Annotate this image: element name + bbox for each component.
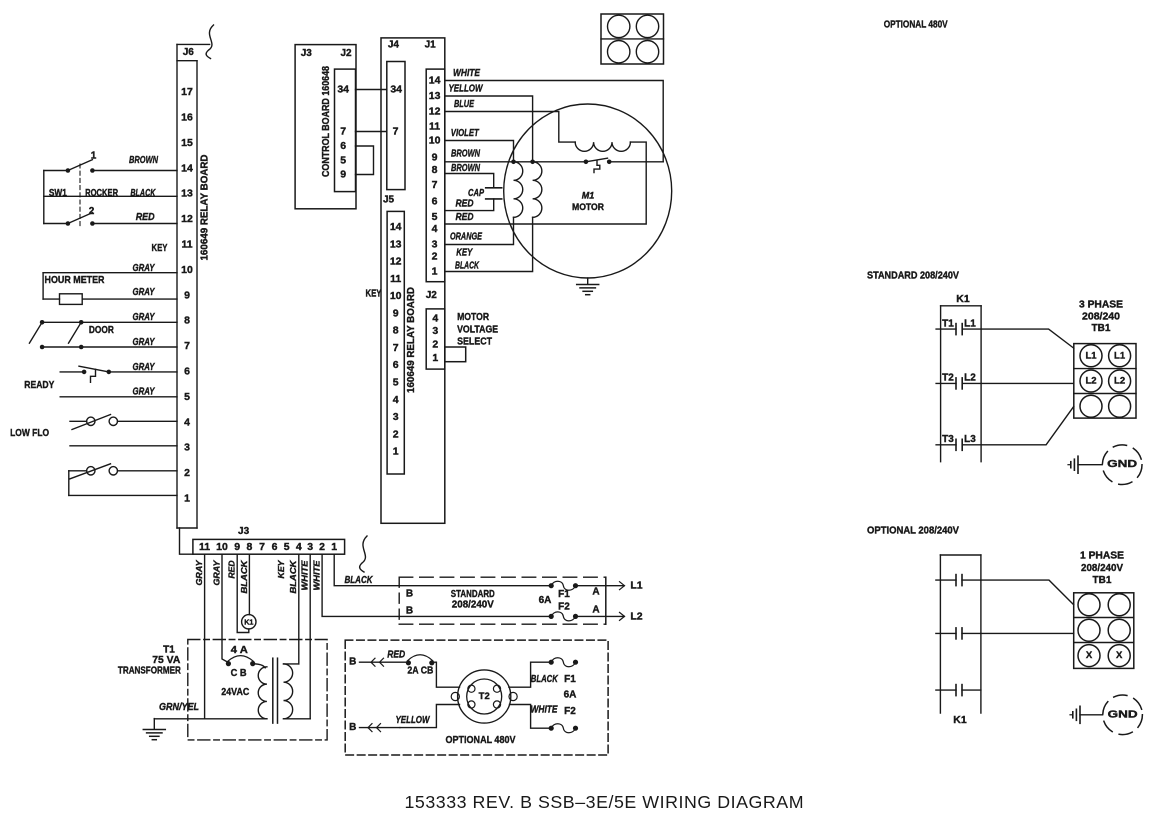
svg-text:GRAY: GRAY [194, 559, 204, 585]
svg-text:VIOLET: VIOLET [451, 128, 480, 139]
svg-text:7: 7 [393, 342, 399, 354]
svg-text:TRANSFORMER: TRANSFORMER [118, 666, 182, 677]
svg-text:WHITE: WHITE [453, 68, 480, 79]
svg-text:BROWN: BROWN [451, 149, 481, 160]
svg-text:OPTIONAL 480V: OPTIONAL 480V [446, 734, 516, 746]
svg-text:208/240V: 208/240V [1081, 563, 1123, 574]
svg-text:J6: J6 [183, 47, 195, 58]
svg-text:L3: L3 [964, 434, 976, 445]
svg-text:F2: F2 [558, 602, 570, 613]
svg-text:16: 16 [181, 112, 193, 124]
svg-text:13: 13 [390, 238, 402, 250]
svg-text:6: 6 [393, 359, 399, 371]
svg-text:VOLTAGE: VOLTAGE [457, 324, 498, 335]
svg-text:2: 2 [432, 339, 438, 351]
svg-text:17: 17 [181, 86, 193, 98]
svg-text:L2: L2 [1085, 376, 1096, 387]
svg-text:3: 3 [184, 442, 190, 454]
svg-text:1: 1 [393, 446, 399, 458]
svg-text:J2: J2 [426, 290, 438, 301]
svg-text:208/240V: 208/240V [452, 599, 494, 610]
svg-text:5: 5 [393, 377, 399, 389]
svg-text:12: 12 [181, 213, 193, 225]
svg-text:J4: J4 [388, 39, 400, 50]
svg-text:208/240: 208/240 [1082, 311, 1120, 322]
svg-text:2: 2 [393, 428, 399, 440]
svg-text:BLACK: BLACK [130, 188, 156, 199]
svg-text:L1: L1 [1085, 350, 1097, 361]
svg-text:M1: M1 [582, 191, 595, 201]
svg-text:1: 1 [432, 352, 438, 364]
svg-text:8: 8 [184, 315, 190, 327]
svg-text:5: 5 [284, 541, 290, 553]
svg-text:7: 7 [259, 541, 265, 553]
svg-text:3 PHASE: 3 PHASE [1079, 300, 1123, 311]
svg-text:11: 11 [390, 273, 401, 285]
svg-text:7: 7 [340, 126, 346, 138]
svg-text:X: X [1086, 650, 1093, 661]
svg-text:F1: F1 [564, 674, 576, 685]
svg-text:GRAY: GRAY [133, 362, 156, 373]
svg-text:RED: RED [456, 198, 474, 209]
svg-text:L2: L2 [1114, 376, 1125, 387]
svg-text:153333 REV. B SSB–3E/5E WIRING: 153333 REV. B SSB–3E/5E WIRING DIAGRAM [405, 792, 804, 812]
svg-text:T1: T1 [942, 318, 954, 329]
svg-text:1: 1 [91, 151, 97, 162]
svg-text:5: 5 [184, 391, 190, 403]
svg-text:X: X [1116, 650, 1123, 661]
svg-text:14: 14 [181, 162, 193, 174]
svg-text:MOTOR: MOTOR [457, 312, 490, 323]
svg-text:TB1: TB1 [1092, 323, 1111, 334]
svg-text:J2: J2 [340, 48, 352, 59]
svg-text:T3: T3 [942, 434, 954, 445]
svg-text:MOTOR: MOTOR [572, 202, 604, 213]
svg-text:BLUE: BLUE [454, 99, 474, 110]
svg-text:6A: 6A [539, 595, 552, 606]
svg-text:BLACK: BLACK [239, 560, 249, 594]
svg-text:2: 2 [89, 206, 95, 217]
svg-text:RED: RED [456, 212, 474, 223]
svg-text:SELECT: SELECT [457, 337, 492, 348]
svg-text:15: 15 [181, 137, 193, 149]
svg-text:WHITE: WHITE [312, 560, 322, 590]
svg-text:GRAY: GRAY [133, 263, 156, 274]
svg-text:6A: 6A [564, 689, 577, 700]
svg-text:L2: L2 [964, 373, 976, 384]
svg-text:KEY: KEY [276, 559, 286, 578]
svg-text:SW1: SW1 [49, 188, 67, 199]
svg-text:GRAY: GRAY [133, 287, 156, 298]
svg-text:K1: K1 [953, 714, 967, 726]
svg-text:OPTIONAL 480V: OPTIONAL 480V [884, 19, 948, 30]
svg-text:160649 RELAY BOARD: 160649 RELAY BOARD [199, 154, 210, 260]
svg-text:BROWN: BROWN [129, 155, 159, 166]
svg-text:9: 9 [393, 307, 399, 319]
svg-text:5: 5 [432, 211, 438, 223]
svg-text:7: 7 [432, 179, 438, 191]
svg-text:HOUR METER: HOUR METER [45, 275, 106, 286]
svg-text:11: 11 [181, 239, 192, 251]
svg-text:10: 10 [181, 264, 193, 276]
svg-text:B: B [349, 722, 356, 733]
svg-text:WHITE: WHITE [300, 560, 310, 590]
svg-text:F1: F1 [558, 589, 570, 600]
svg-text:GRN/YEL: GRN/YEL [159, 702, 199, 713]
svg-text:11: 11 [429, 121, 440, 133]
svg-text:14: 14 [429, 75, 441, 87]
svg-text:9: 9 [340, 169, 346, 181]
svg-text:ORANGE: ORANGE [450, 231, 482, 242]
svg-text:A: A [592, 604, 599, 615]
svg-text:STANDARD 208/240V: STANDARD 208/240V [867, 270, 959, 281]
svg-text:8: 8 [432, 164, 438, 176]
svg-text:BLACK: BLACK [288, 560, 298, 594]
svg-text:6: 6 [272, 541, 278, 553]
svg-text:C B: C B [231, 668, 247, 679]
svg-text:34: 34 [390, 84, 402, 96]
svg-text:T2: T2 [942, 373, 954, 384]
svg-text:9: 9 [184, 289, 190, 301]
svg-text:RED: RED [227, 561, 237, 579]
svg-text:2: 2 [432, 251, 438, 263]
svg-text:L1: L1 [964, 318, 976, 329]
svg-text:11: 11 [199, 541, 210, 553]
svg-text:34: 34 [337, 84, 349, 96]
svg-text:B: B [406, 588, 413, 599]
svg-text:BROWN: BROWN [451, 163, 481, 174]
svg-text:1: 1 [331, 541, 337, 553]
svg-text:L1: L1 [1114, 350, 1126, 361]
svg-text:YELLOW: YELLOW [449, 83, 484, 94]
svg-text:7: 7 [184, 340, 190, 352]
svg-text:4: 4 [432, 313, 438, 325]
svg-text:A: A [592, 587, 599, 598]
svg-text:BLACK: BLACK [345, 575, 374, 586]
svg-text:L2: L2 [630, 610, 642, 622]
svg-text:YELLOW: YELLOW [396, 715, 431, 726]
svg-text:RED: RED [136, 212, 155, 223]
svg-text:12: 12 [429, 106, 441, 118]
svg-text:T1: T1 [163, 644, 175, 655]
svg-text:2: 2 [319, 541, 325, 553]
svg-text:GND: GND [1108, 709, 1138, 720]
svg-text:ROCKER: ROCKER [85, 188, 119, 199]
svg-text:6: 6 [340, 140, 346, 152]
svg-text:J1: J1 [425, 39, 437, 50]
svg-text:1: 1 [432, 266, 438, 278]
svg-text:4: 4 [184, 416, 190, 428]
svg-text:2: 2 [184, 467, 190, 479]
svg-text:24VAC: 24VAC [221, 686, 249, 698]
svg-text:J3: J3 [301, 48, 313, 59]
svg-text:K1: K1 [956, 293, 970, 305]
svg-text:TB1: TB1 [1093, 575, 1112, 586]
svg-text:10: 10 [390, 290, 402, 302]
svg-text:GRAY: GRAY [133, 312, 156, 323]
svg-text:DOOR: DOOR [89, 325, 115, 336]
svg-text:KEY: KEY [456, 247, 473, 258]
svg-text:75 VA: 75 VA [152, 655, 180, 666]
svg-text:F2: F2 [564, 706, 576, 717]
svg-text:GND: GND [1107, 459, 1137, 470]
svg-text:KEY: KEY [152, 243, 168, 254]
svg-text:5: 5 [340, 155, 346, 167]
svg-text:CONTROL BOARD 160648: CONTROL BOARD 160648 [321, 66, 332, 177]
svg-text:WHITE: WHITE [531, 705, 558, 716]
svg-text:13: 13 [429, 90, 441, 102]
svg-text:8: 8 [246, 541, 252, 553]
svg-text:GRAY: GRAY [133, 337, 156, 348]
svg-text:STANDARD: STANDARD [451, 589, 495, 600]
svg-text:3: 3 [432, 325, 438, 337]
svg-text:RED: RED [387, 650, 405, 661]
svg-text:6: 6 [184, 366, 190, 378]
svg-text:KEY: KEY [366, 289, 382, 300]
svg-text:1: 1 [184, 493, 190, 505]
svg-text:OPTIONAL 208/240V: OPTIONAL 208/240V [867, 525, 959, 536]
svg-text:J3: J3 [238, 526, 250, 537]
svg-text:3: 3 [432, 239, 438, 251]
svg-text:1 PHASE: 1 PHASE [1080, 551, 1124, 562]
svg-text:10: 10 [429, 135, 441, 147]
svg-text:J5: J5 [383, 195, 395, 206]
svg-text:9: 9 [234, 541, 240, 553]
svg-text:K1: K1 [244, 617, 253, 626]
svg-text:6: 6 [432, 196, 438, 208]
svg-text:4: 4 [393, 394, 399, 406]
svg-text:4 A: 4 A [231, 645, 248, 656]
svg-text:B: B [349, 657, 356, 668]
svg-text:B: B [406, 606, 413, 617]
svg-text:READY: READY [24, 380, 54, 391]
svg-text:BLACK: BLACK [531, 674, 559, 685]
svg-text:4: 4 [432, 223, 438, 235]
svg-text:GRAY: GRAY [211, 559, 221, 585]
svg-text:2A CB: 2A CB [407, 666, 433, 677]
svg-text:9: 9 [432, 152, 438, 164]
svg-text:4: 4 [296, 541, 302, 553]
svg-text:13: 13 [181, 188, 193, 200]
svg-text:GRAY: GRAY [133, 387, 156, 398]
svg-text:3: 3 [307, 541, 313, 553]
svg-text:T2: T2 [479, 691, 490, 702]
svg-text:10: 10 [216, 541, 228, 553]
svg-text:160649 RELAY BOARD: 160649 RELAY BOARD [406, 287, 417, 393]
svg-text:12: 12 [390, 256, 402, 268]
svg-text:LOW FLO: LOW FLO [10, 428, 49, 439]
svg-text:7: 7 [393, 126, 399, 138]
svg-text:8: 8 [393, 325, 399, 337]
svg-text:3: 3 [393, 411, 399, 423]
svg-text:L1: L1 [630, 580, 642, 592]
svg-text:14: 14 [390, 221, 402, 233]
svg-text:BLACK: BLACK [455, 261, 480, 272]
svg-text:CAP: CAP [468, 188, 484, 199]
